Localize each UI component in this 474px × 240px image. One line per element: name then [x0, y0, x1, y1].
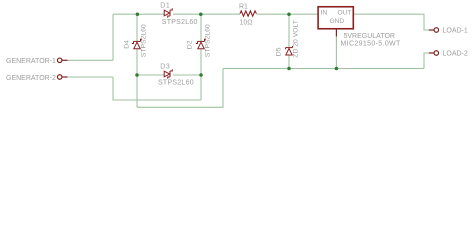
svg-text:STPS2L60: STPS2L60: [205, 24, 212, 57]
node junction dot D3 left: [135, 73, 139, 77]
wire GEN2 horizontal: [67, 76, 113, 78]
diode D2 (vertical schottky): [196, 39, 206, 49]
node junction dot D3 right: [199, 73, 203, 77]
svg-text:GND: GND: [330, 18, 345, 25]
svg-text:IN: IN: [321, 10, 328, 17]
svg-text:LOAD-2: LOAD-2: [443, 51, 468, 58]
node junction dot D5 bottom: [287, 67, 291, 71]
node junction dot top rail D4: [136, 12, 140, 16]
wire OUT to LOAD-1: [354, 14, 430, 30]
svg-text:GENERATOR-1: GENERATOR-1: [6, 58, 56, 65]
svg-text:D5: D5: [276, 47, 283, 56]
wire D5 branch top: [288, 14, 290, 47]
wire D2 bottom to D3 node: [200, 49, 202, 100]
wire GND rail up to LOAD-2: [424, 53, 429, 69]
wire GND rail y68.5: [223, 68, 424, 70]
svg-text:D2: D2: [186, 40, 193, 49]
connector GENERATOR-1 pin: [57, 58, 67, 63]
svg-text:STPS2L60: STPS2L60: [162, 19, 198, 26]
connector LOAD-1 pin: [429, 28, 439, 33]
wire GEN2 down and along y100: [113, 77, 201, 100]
node junction dot regulator GND: [335, 67, 339, 71]
wire top rail R1 to regulator IN: [257, 13, 318, 15]
wire top rail D1 to R1: [173, 13, 240, 15]
node junction dot top rail D2: [199, 12, 203, 16]
svg-text:10Ω: 10Ω: [240, 20, 253, 27]
wire D5 bottom to GND rail: [288, 56, 290, 69]
wire GEN1 vertical to top rail: [112, 14, 114, 60]
svg-text:STPS2L60: STPS2L60: [158, 80, 194, 87]
svg-text:ZD 20 VOLT: ZD 20 VOLT: [293, 20, 300, 58]
wire GEN1 horizontal: [67, 59, 113, 61]
op-amp U1 regulator box: [318, 7, 353, 29]
diode D4 (vertical schottky): [132, 39, 142, 49]
node junction dot top rail D5: [287, 12, 291, 16]
wire D4 branch top: [136, 14, 138, 41]
svg-text:LOAD-1: LOAD-1: [443, 28, 468, 35]
svg-text:D3: D3: [160, 63, 170, 70]
connector GENERATOR-2 pin: [57, 75, 67, 80]
wire D3 right segment: [173, 74, 201, 76]
wire D3 left segment: [137, 74, 164, 76]
wire top rail left segment: [113, 13, 164, 15]
diode D3 (horizontal schottky): [164, 69, 172, 78]
svg-text:D4: D4: [123, 40, 130, 49]
connector LOAD-2 pin: [429, 51, 439, 56]
svg-text:GENERATOR-2: GENERATOR-2: [6, 75, 56, 82]
svg-text:STPS2L60: STPS2L60: [140, 24, 147, 57]
wire D4 bottom to bottom rail: [136, 49, 138, 107]
diode D1 (horizontal schottky): [164, 8, 172, 17]
svg-text:D1: D1: [160, 3, 170, 10]
svg-text:R1: R1: [239, 4, 248, 11]
wire bottom rail y107: [137, 69, 223, 108]
wire regulator GND to rail: [335, 37, 337, 69]
resistor R1 zigzag: [240, 11, 256, 16]
pin regulator GND stub: [335, 29, 337, 36]
svg-text:5VREGULATOR: 5VREGULATOR: [344, 33, 395, 40]
svg-text:OUT: OUT: [338, 10, 352, 17]
svg-text:MIC29150-5.0WT: MIC29150-5.0WT: [341, 41, 402, 48]
diode D5 zener (vertical): [286, 46, 293, 55]
wire D2 branch top: [200, 14, 202, 41]
